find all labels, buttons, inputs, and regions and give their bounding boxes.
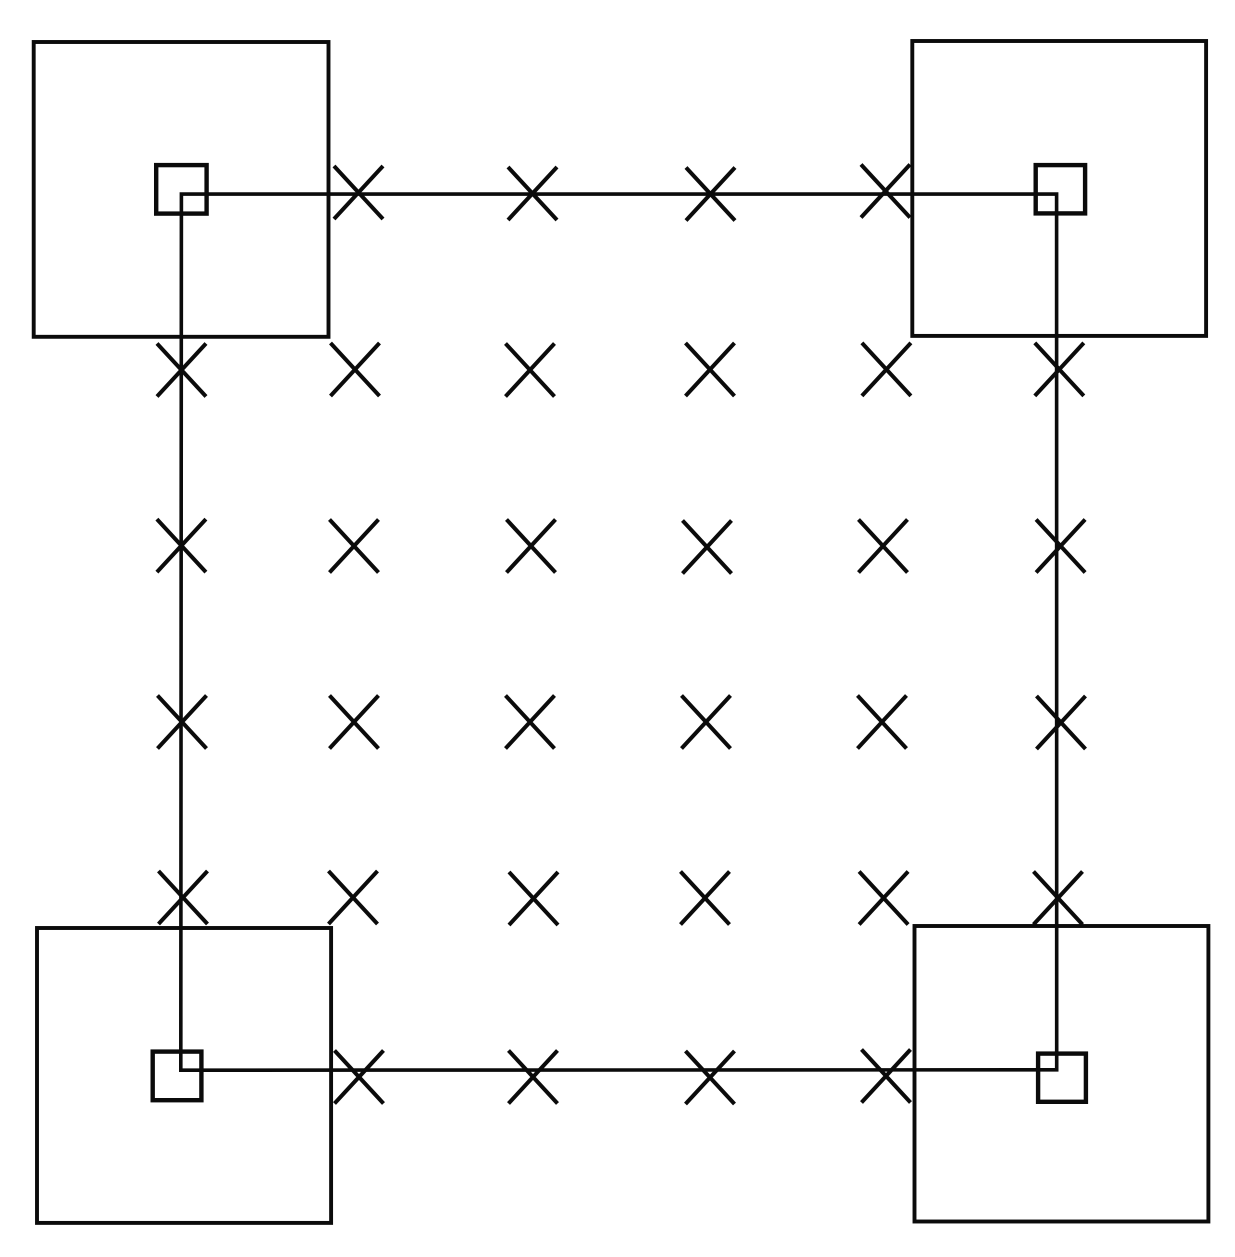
X mark row1 col5	[861, 165, 910, 218]
node square S2 (top-right inner square)	[1036, 165, 1085, 213]
X mark row3 col1	[157, 519, 206, 572]
X mark row5 col3	[509, 872, 558, 925]
anchor square A2 (top-right outer square)	[912, 41, 1206, 336]
X mark row5 col1	[159, 871, 208, 924]
wire rectangle connecting the four corner nodes	[181, 194, 1057, 1070]
X mark row6 col2	[335, 1051, 384, 1104]
X mark row2 col4	[686, 343, 735, 396]
X mark row2 col6	[1035, 343, 1084, 396]
X mark row4 col3	[506, 696, 555, 749]
node square S1 (top-left inner square)	[156, 165, 206, 214]
X mark row6 col3	[509, 1051, 558, 1104]
X mark row4 col1	[158, 696, 207, 749]
X mark row2 col2	[331, 343, 380, 396]
X mark row3 col3	[507, 520, 556, 573]
X mark row6 col4	[686, 1051, 735, 1104]
anchor square A1 (top-left outer square)	[34, 42, 329, 337]
X mark row3 col5	[859, 520, 908, 573]
X mark row3 col6	[1036, 520, 1085, 573]
X mark row4 col6	[1037, 696, 1086, 749]
anchor square A3 (bottom-left outer square)	[37, 928, 331, 1223]
node square S3 (bottom-left inner square)	[153, 1052, 202, 1101]
X mark row2 col5	[862, 343, 911, 396]
X mark row3 col4	[683, 521, 732, 574]
X mark row1 col3	[508, 167, 557, 220]
X mark row6 col5	[862, 1050, 911, 1103]
X mark row5 col4	[681, 872, 730, 925]
X mark row2 col3	[506, 344, 555, 397]
anchor square A4 (bottom-right outer square)	[915, 926, 1209, 1222]
X mark row1 col2	[334, 166, 383, 219]
X mark row4 col5	[858, 696, 907, 749]
X mark row3 col2	[330, 520, 379, 573]
X mark row2 col1	[157, 344, 206, 397]
X mark row1 col4	[686, 168, 735, 221]
X mark row5 col2	[329, 871, 378, 924]
X mark row5 col5	[859, 872, 908, 925]
X mark row5 col6	[1034, 872, 1083, 925]
X mark row4 col2	[330, 696, 379, 749]
X mark row4 col4	[682, 696, 731, 749]
node square S4 (bottom-right inner square)	[1038, 1054, 1086, 1102]
